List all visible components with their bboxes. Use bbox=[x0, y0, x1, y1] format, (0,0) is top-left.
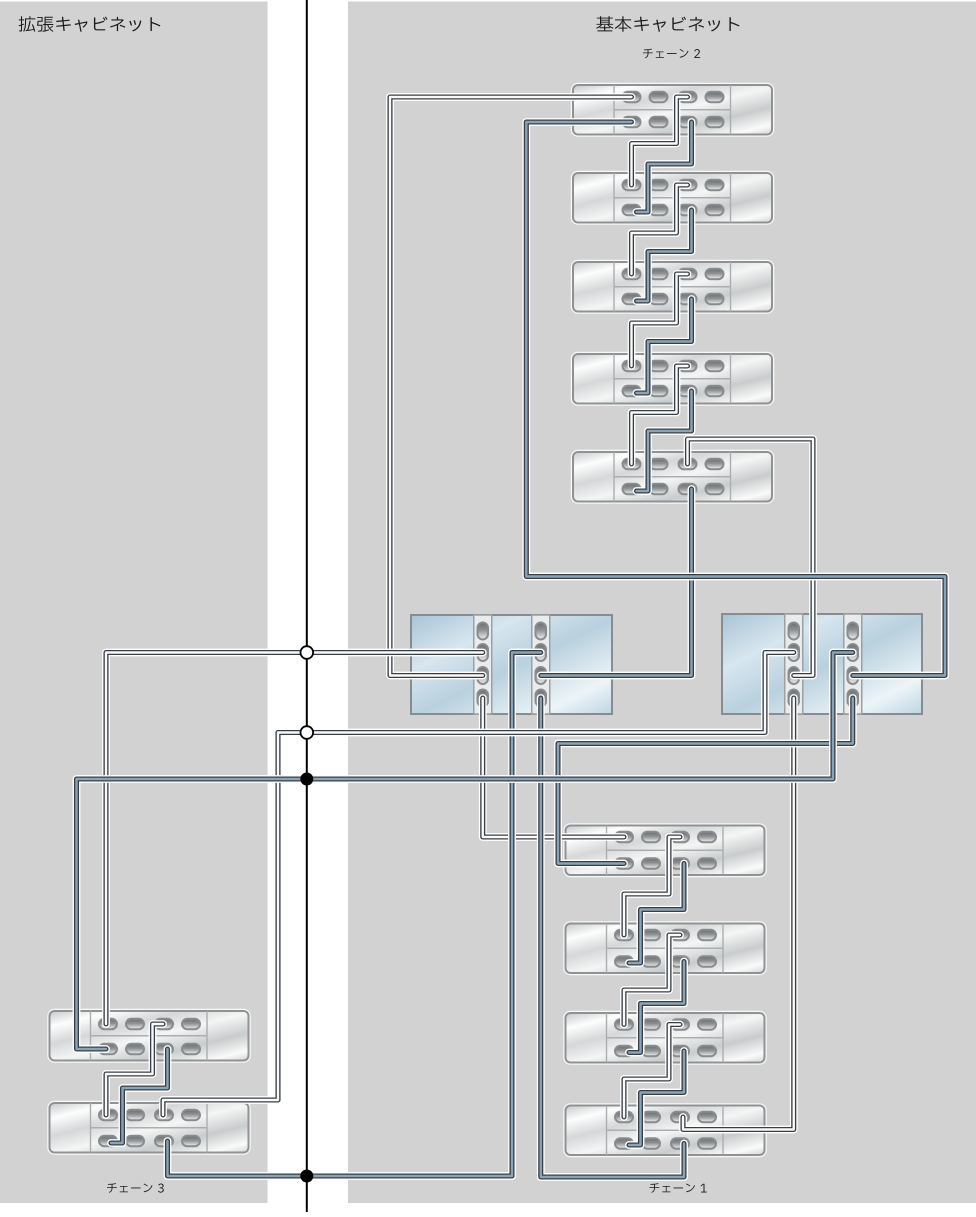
disk shelf L1 (chain 3 #1) bbox=[50, 1011, 249, 1061]
wire: right controller HBA1 port2 - shelf L2 top port3 (via junction circle) bbox=[163, 653, 794, 1116]
disk shelf B1 (chain 1 #1) bbox=[566, 826, 765, 876]
wire: shelf B3 top port3 - shelf B4 top port1 bbox=[624, 1025, 680, 1118]
wire: shelf T1 bottom port3 - shelf T2 bottom port1 bbox=[637, 122, 692, 212]
wire: shelf L1 bottom port3 - shelf L2 bottom port1 bbox=[111, 1049, 168, 1143]
disk shelf T3 (chain 2 #3) bbox=[573, 262, 772, 312]
label チェーン 3 bbox=[107, 1183, 164, 1193]
expansion cabinet panel bbox=[0, 2, 268, 1204]
disk shelf T1 (chain 2 #1) bbox=[573, 85, 772, 135]
cabinet divider line bbox=[306, 0, 308, 1212]
disk shelf L2 (chain 3 #2) bbox=[50, 1103, 249, 1153]
wire: shelf T5 bottom port3 - left controller HBA2 port3 bbox=[541, 489, 692, 676]
disk shelf B3 (chain 1 #3) bbox=[566, 1013, 765, 1063]
controller right (base cabinet controller 2) bbox=[722, 614, 922, 714]
wire: shelf T4 bottom port3 - shelf T5 bottom port1 bbox=[637, 391, 692, 491]
wire: shelf B2 top port3 - shelf B3 top port1 bbox=[624, 935, 680, 1025]
wire: shelf T3 bottom port3 - shelf T4 bottom port1 bbox=[637, 299, 692, 393]
label チェーン 1 bbox=[650, 1183, 707, 1193]
wire: shelf L2 bottom port3 - left controller HBA2 port2 (via junction dot) bbox=[168, 653, 541, 1177]
wire: shelf B1 top port3 - shelf B2 top port1 bbox=[624, 837, 680, 935]
wire: shelf B2 bottom port3 - shelf B3 bottom port1 bbox=[629, 962, 684, 1053]
junction dot (filled) bottom bbox=[300, 1170, 313, 1183]
wire: shelf T3 top port3 - shelf T4 top port1 bbox=[632, 274, 688, 366]
controller left (base cabinet controller 1) bbox=[411, 615, 612, 714]
wire: shelf T2 top port3 - shelf T3 top port1 bbox=[632, 185, 688, 274]
wire: shelf T1 top port3 - shelf T2 top port1 bbox=[632, 97, 688, 185]
disk shelf B4 (chain 1 #4) bbox=[566, 1106, 765, 1156]
wire: shelf T5 top port3 - right controller HBA1 port3 bbox=[688, 439, 814, 676]
wire: left controller HBA1 port4 - shelf B1 top port1 bbox=[483, 698, 624, 837]
junction dot (filled) middle bbox=[300, 773, 313, 786]
wire: left controller HBA1 port2 - shelf L1 top port1 (via junction circle) bbox=[106, 653, 483, 1025]
label 拡張キャビネット bbox=[19, 16, 161, 32]
wire: shelf T4 top port3 - shelf T5 top port1 bbox=[632, 366, 688, 464]
disk shelf T5 (chain 2 #5) bbox=[573, 452, 772, 502]
wire: shelf T1 bottom port1 - right controller HBA2 port3 bbox=[526, 122, 945, 676]
wire: shelf T1 top port1 - left controller HBA1 port3 bbox=[390, 97, 632, 676]
wire: shelf B1 bottom port3 - shelf B2 bottom port1 bbox=[629, 864, 684, 964]
wire: shelf B3 bottom port3 - shelf B4 bottom port1 bbox=[629, 1051, 684, 1145]
wire: right controller HBA2 port2 - shelf L1 bottom port1 (via junction dot) bbox=[77, 653, 853, 1050]
wire: shelf L1 top port3 - shelf L2 top port1 bbox=[106, 1024, 163, 1115]
label 基本キャビネット bbox=[596, 16, 739, 32]
wire: right controller HBA2 port4 - shelf B1 bottom port1 bbox=[558, 698, 853, 864]
label チェーン 2 bbox=[643, 49, 700, 59]
base cabinet panel bbox=[348, 2, 976, 1204]
junction circle (open) upper bbox=[301, 646, 314, 659]
wire: shelf T2 bottom port3 - shelf T3 bottom port1 bbox=[637, 210, 692, 301]
disk shelf B2 (chain 1 #2) bbox=[566, 924, 765, 974]
disk shelf T4 (chain 2 #4) bbox=[573, 354, 772, 404]
disk shelf T2 (chain 2 #2) bbox=[573, 173, 772, 223]
wire: right controller HBA1 port4 - shelf B4 top port3 bbox=[683, 698, 794, 1130]
junction circle (open) lower bbox=[301, 726, 314, 739]
wire: left controller HBA2 port4 - shelf B4 bottom port3 (via junction dot) bbox=[541, 698, 684, 1177]
